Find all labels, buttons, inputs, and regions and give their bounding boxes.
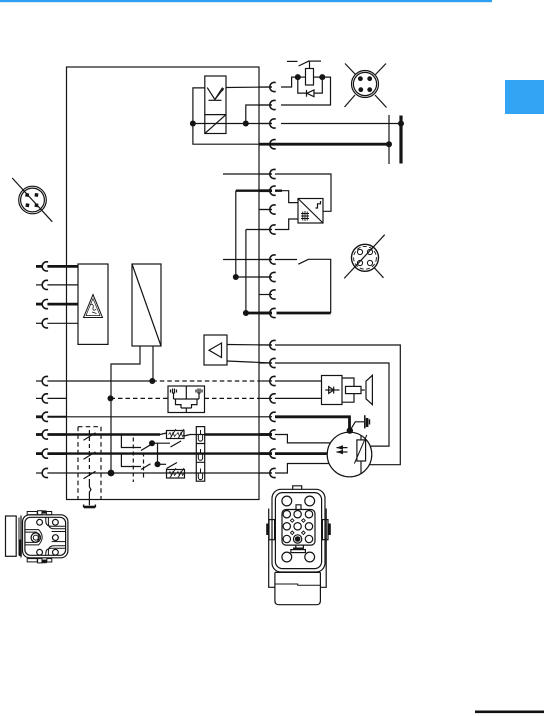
junction dot sender top bbox=[347, 427, 353, 433]
dot2 link wire bbox=[158, 463, 167, 465]
wire flasher to pin87 row bbox=[226, 86, 272, 89]
wire pin398 to horn bbox=[275, 397, 322, 399]
wire stub pin R19 bbox=[259, 452, 272, 455]
internal bus bbox=[174, 398, 200, 400]
wire row434 right section bbox=[190, 434, 205, 436]
junction dot battery thick plate bbox=[398, 121, 404, 127]
terminal pin R2 bbox=[270, 100, 276, 109]
ground bar bbox=[84, 505, 96, 507]
bottom right black rule bbox=[475, 711, 544, 714]
horn rear box bbox=[342, 378, 354, 402]
connector A housing inner bbox=[25, 517, 66, 555]
wire pin123 to battery positive bbox=[281, 123, 401, 125]
horn diode line bbox=[325, 389, 339, 391]
relay coil bbox=[306, 69, 314, 86]
wire row473 bbox=[67, 472, 272, 474]
pin block diamonds bbox=[290, 519, 305, 535]
connector B body inner bbox=[275, 493, 321, 569]
regulator step symbol bbox=[316, 201, 321, 208]
bold tip at pin190 bbox=[275, 189, 282, 191]
main wire-harness box bbox=[67, 67, 260, 500]
terminal pin L8 bbox=[42, 430, 48, 439]
terminal pin R20 bbox=[270, 468, 276, 477]
junction dot row473 bbox=[108, 470, 115, 477]
inner wire row313 bold bbox=[246, 312, 272, 315]
wire y174 inside bbox=[223, 173, 272, 175]
solid wire row381 left bbox=[67, 380, 152, 382]
terminal pin L4 bbox=[42, 319, 48, 328]
bottom key bar bbox=[291, 550, 306, 553]
junction dot battery thin plate bbox=[386, 141, 392, 147]
top blue rule bbox=[0, 0, 492, 2]
dashed box top bbox=[78, 426, 101, 428]
blade below resistor1 bbox=[171, 441, 182, 447]
junction dot row277 bbox=[233, 274, 239, 280]
connector A grooves right-middle bbox=[52, 531, 66, 533]
junction dot2 bbox=[155, 461, 161, 467]
riser to pin105 bbox=[246, 105, 272, 124]
wire row434 bold left section bbox=[67, 433, 160, 435]
sender resistor arrow bbox=[354, 435, 366, 464]
wire stub pin R2 bbox=[259, 104, 272, 106]
wire to pin363 bbox=[227, 361, 272, 363]
connector A top tabs bbox=[27, 512, 37, 515]
wire pin229 jog to regulator bottom-left bbox=[275, 219, 298, 230]
wire pin345 down right side bbox=[275, 345, 400, 465]
terminal pin R8 bbox=[270, 225, 276, 234]
connector B body outer bbox=[272, 489, 325, 572]
relay coil top lead bbox=[309, 61, 311, 68]
diode triangle bbox=[307, 90, 314, 97]
pin block top notch bbox=[296, 505, 301, 510]
terminal fork row453 bbox=[198, 449, 202, 460]
center lead bbox=[185, 386, 187, 399]
horn cone bbox=[366, 375, 372, 404]
relay coil resistor box 1 bbox=[167, 431, 185, 439]
wire stub pin R10 bbox=[259, 276, 272, 278]
wire stub pin R4 bbox=[259, 143, 272, 146]
terminal pin R3 bbox=[270, 119, 276, 128]
terminal pin L3 bbox=[42, 300, 48, 309]
arrow through V bbox=[215, 89, 223, 99]
relay coil resistor box 2 bbox=[167, 470, 185, 479]
bold return wire to pin313 bbox=[277, 312, 331, 315]
switch blade row453 bbox=[84, 452, 96, 459]
junction dot flasher left bbox=[190, 121, 196, 127]
dashed box right bbox=[100, 427, 102, 500]
terminal pin L9 bbox=[42, 449, 48, 458]
terminal pin L6 bbox=[42, 394, 48, 403]
wire stub pin R17 bbox=[259, 416, 272, 418]
wire dot-left to coil bbox=[298, 76, 306, 78]
wires lower pins into box bbox=[47, 380, 67, 382]
horn rod bbox=[361, 389, 365, 391]
junction dot row313 bbox=[243, 310, 249, 316]
terminal pin R1 bbox=[270, 82, 276, 91]
wire stub pin R18 bbox=[259, 433, 272, 436]
wire row453 bold bbox=[67, 452, 272, 454]
ground lead bbox=[89, 479, 91, 505]
blade above resistor2 bbox=[167, 463, 178, 469]
diode cathode bar bbox=[306, 90, 308, 97]
left device bbox=[171, 389, 177, 400]
wire pin259 to contact bbox=[275, 259, 297, 261]
inner wire row277 from dot bbox=[236, 276, 272, 278]
wire stub pin R8 bbox=[259, 229, 272, 231]
terminal fork row434 bbox=[198, 430, 202, 441]
wire row417 inside bbox=[67, 416, 259, 418]
terminal pin R15 bbox=[270, 376, 276, 385]
boot body bbox=[275, 572, 321, 604]
switch blade row473 bbox=[84, 471, 96, 478]
junction dot flasher right bbox=[243, 121, 249, 127]
crossing wire through lower cell bbox=[193, 123, 246, 125]
right leg bbox=[152, 346, 154, 381]
boot top bbox=[275, 571, 321, 573]
terminal pin L5 bbox=[42, 376, 48, 385]
terminal pin R4 bbox=[270, 140, 276, 149]
regulator diagonal bbox=[298, 199, 323, 224]
terminal pin L7 bbox=[42, 412, 48, 421]
terminal pin R18 bbox=[270, 430, 276, 439]
sender resistor bbox=[357, 440, 366, 461]
connector A grooves left-middle bbox=[25, 530, 42, 545]
wire stub pin R7 bbox=[259, 209, 272, 211]
connector A bottom tabs bbox=[27, 559, 37, 562]
terminal pin R17 bbox=[270, 412, 276, 421]
V contact symbol bbox=[207, 88, 222, 100]
terminal pin R16 bbox=[270, 394, 276, 403]
wire relay to pin105 bbox=[281, 77, 331, 105]
sender resistor leads bbox=[360, 435, 362, 473]
junction dot row398 bbox=[108, 395, 114, 401]
wire to pin345 bbox=[227, 344, 272, 347]
wire stub pin R6 bbox=[259, 189, 272, 192]
left leg bbox=[111, 346, 140, 473]
diode branch right leg bbox=[314, 77, 322, 93]
right latch bracket bbox=[322, 520, 328, 540]
wire stub pin R15 bbox=[259, 380, 272, 382]
connector A left block bbox=[6, 516, 17, 556]
wires pins to warning box bbox=[47, 265, 78, 268]
bottom steps bbox=[176, 399, 198, 413]
wire pin190 jog to regulator left bbox=[275, 191, 298, 203]
wire coil to dot-right bbox=[314, 76, 323, 78]
wire pin363 down bbox=[275, 363, 389, 446]
horn body bbox=[322, 376, 343, 405]
dashed linkage x143.5 bbox=[143, 453, 145, 478]
regulator hash symbol bbox=[301, 211, 309, 221]
dashed middle linkage bbox=[88, 430, 90, 479]
dashed wire row398 bbox=[111, 397, 169, 399]
diode branch left leg bbox=[298, 77, 307, 93]
connector A pins bbox=[37, 519, 43, 525]
connector A housing outer bbox=[23, 515, 68, 558]
diagonal in lower cell bbox=[205, 115, 226, 134]
wire stub pin R3 bbox=[259, 123, 272, 125]
boot seam bbox=[275, 584, 321, 585]
battery thick plate bbox=[399, 116, 402, 164]
junction dot relay left bbox=[295, 74, 301, 80]
terminal pin R14 bbox=[270, 358, 276, 367]
terminal pin R11 bbox=[270, 290, 276, 299]
wire row473 step to sender bbox=[275, 464, 329, 474]
rectifier regulator box bbox=[298, 199, 323, 224]
junction dot relay right bbox=[319, 74, 325, 80]
horn diode triangle bbox=[329, 387, 334, 394]
wire pin87 riser to relay bbox=[281, 77, 298, 87]
right device bbox=[196, 389, 202, 400]
outer frame left bbox=[269, 509, 275, 588]
terminal pin R5 bbox=[270, 169, 276, 178]
pin block pins row3 bbox=[283, 535, 290, 542]
terminal pin L10 bbox=[42, 468, 48, 477]
terminal pin R10 bbox=[270, 272, 276, 281]
dot1 link wires bbox=[152, 442, 170, 444]
wire stub pin R14 bbox=[259, 362, 272, 364]
inner wire row190 bold bbox=[236, 189, 272, 191]
connector B grommet holes bbox=[282, 496, 292, 506]
inner wire row259 bbox=[223, 259, 272, 261]
wire dot to pin123 bbox=[246, 123, 272, 125]
warning triangle symbol bbox=[84, 295, 103, 318]
blade to dot2 bbox=[141, 464, 151, 470]
inner riser 245.9 bbox=[245, 230, 247, 314]
stub row266 bold bbox=[36, 265, 42, 268]
pin block pins row1 bbox=[283, 511, 290, 518]
wire stub pin R13 bbox=[259, 344, 272, 346]
dashed linkage x133 bbox=[132, 438, 134, 483]
dashed wire row381 bbox=[152, 380, 259, 382]
inner stub row209 bbox=[259, 209, 272, 211]
inner wire row229 bbox=[246, 229, 272, 231]
riser dot1-dot2 bbox=[157, 443, 159, 464]
resistor 2 zigzags bbox=[169, 472, 185, 476]
jog bracket row434 bbox=[121, 435, 141, 448]
chassis ground lead bbox=[350, 422, 364, 431]
connector B pin block bbox=[282, 510, 315, 546]
chassis ground bars bbox=[364, 415, 366, 428]
junction dot1 bbox=[149, 440, 155, 446]
connector A grooves top-right bbox=[46, 518, 66, 527]
V underline bbox=[209, 99, 222, 101]
terminal pin L1 bbox=[42, 262, 48, 271]
jog bracket row453 bbox=[121, 454, 141, 467]
relay contact fixed line right bbox=[308, 60, 321, 62]
bottom loop wire bbox=[193, 124, 272, 145]
left riser wire bbox=[193, 88, 205, 124]
wire contact to loop bbox=[308, 259, 331, 313]
resistor 1 zigzags bbox=[169, 433, 185, 437]
left latch bracket bbox=[269, 520, 275, 540]
wire stub pin R12 bbox=[259, 312, 272, 315]
terminal pin R9 bbox=[270, 255, 276, 264]
diagonal leads resistor1 bbox=[160, 433, 190, 436]
inner riser 235.8 bbox=[235, 191, 237, 277]
wire stub pin R16 bbox=[259, 397, 272, 399]
switch blade row434 bbox=[84, 433, 96, 440]
pin block pins row2 bbox=[283, 523, 290, 530]
sender arrows bbox=[337, 448, 348, 452]
wire row453 bold to sender bbox=[275, 452, 327, 455]
terminal pin R12 bbox=[270, 308, 276, 317]
connector B top tab bbox=[293, 486, 302, 490]
connector A shell lip bbox=[18, 518, 20, 556]
connector A grooves bottom-right bbox=[46, 548, 66, 555]
wire stub pin R5 bbox=[259, 173, 272, 175]
dashed box left bbox=[77, 427, 79, 500]
terminal pin R19 bbox=[270, 449, 276, 458]
flasher box bbox=[205, 76, 226, 134]
fuel sender circle bbox=[327, 432, 372, 477]
horn plunger bbox=[346, 386, 362, 393]
wire row434 step to sender bbox=[275, 435, 330, 443]
relay contact blade bbox=[299, 61, 309, 66]
terminal fork row473 bbox=[198, 469, 202, 480]
wire stub pin R20 bbox=[259, 472, 272, 474]
battery thin plate bbox=[388, 115, 390, 164]
blue side tab bbox=[505, 80, 544, 114]
terminal pin R6 bbox=[270, 186, 276, 195]
wire pin381 to horn bbox=[275, 380, 322, 382]
wire stub pin R1 bbox=[259, 86, 272, 88]
terminal pin R7 bbox=[270, 205, 276, 214]
wire pin144 to battery (bold) bbox=[272, 143, 389, 146]
wire stub pin R11 bbox=[259, 294, 272, 296]
horn diode bar bbox=[333, 387, 335, 394]
switch blade bbox=[298, 259, 308, 264]
wire y174 outer loop to regulator right bbox=[275, 174, 331, 211]
wire pin416 bold down to sender bbox=[275, 417, 350, 433]
pin block bottom tab bbox=[296, 545, 304, 548]
terminal pin R13 bbox=[270, 340, 276, 349]
blade to dot1 bbox=[141, 445, 151, 451]
flasher divider bbox=[205, 114, 226, 116]
junction dot row381 bbox=[149, 378, 155, 384]
wire stub pin R9 bbox=[259, 259, 272, 261]
terminal pin L2 bbox=[42, 280, 48, 289]
outer frame right bbox=[320, 509, 326, 588]
relay contact fixed line left bbox=[287, 60, 298, 62]
